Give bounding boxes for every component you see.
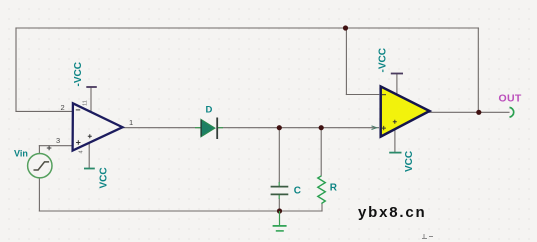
svg-text:VCC: VCC xyxy=(404,151,415,172)
svg-text:D: D xyxy=(206,104,213,115)
svg-text:-VCC: -VCC xyxy=(73,62,84,86)
svg-text:2: 2 xyxy=(61,103,65,112)
svg-text:-VCC: -VCC xyxy=(377,48,388,72)
svg-text:VCC: VCC xyxy=(99,167,110,188)
svg-text:OUT: OUT xyxy=(499,92,522,104)
svg-text:11: 11 xyxy=(83,100,89,106)
svg-text:4: 4 xyxy=(79,150,85,153)
svg-text:1: 1 xyxy=(129,118,133,127)
svg-text:C: C xyxy=(294,185,301,196)
svg-text:R: R xyxy=(330,182,338,193)
svg-text:ybx8.cn: ybx8.cn xyxy=(358,204,426,221)
svg-text:3: 3 xyxy=(56,136,60,145)
svg-text:Vin: Vin xyxy=(14,149,28,159)
